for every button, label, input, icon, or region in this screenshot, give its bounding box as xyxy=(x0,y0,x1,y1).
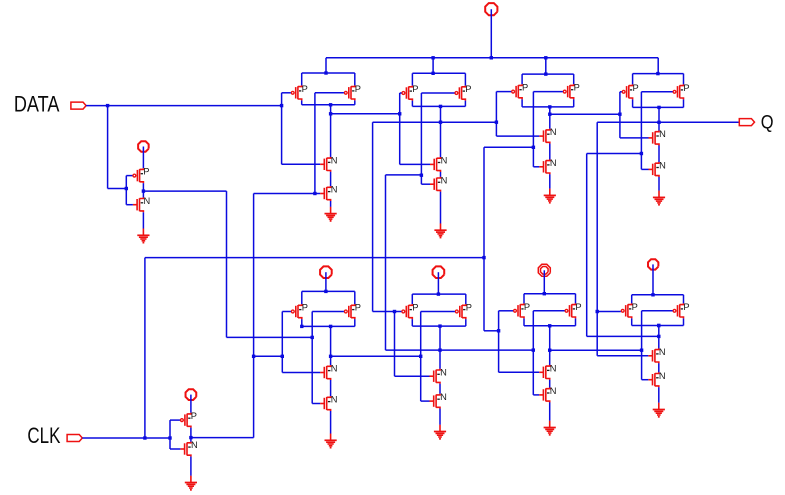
wire mQ horizontal xyxy=(373,121,497,123)
wire G3 P2 gate vertical xyxy=(532,92,534,167)
junction G3 output node xyxy=(548,105,551,108)
wire G6 P1 gate line xyxy=(395,311,402,313)
junction G7 output node xyxy=(548,324,551,327)
wire G5 vdd stem xyxy=(325,272,327,291)
wire G2 pmos top rail xyxy=(412,72,465,74)
wire CLK to G3 gates xyxy=(484,146,533,148)
wire G5 input vertical xyxy=(281,312,283,373)
junction mQ at G2 output xyxy=(439,121,442,124)
pmos G7-P2 xyxy=(565,302,582,319)
junction G8 rail tap xyxy=(657,324,660,327)
junction G8 vdd stem xyxy=(651,293,654,296)
junction G6 output tap xyxy=(438,348,441,351)
svg-text:N: N xyxy=(331,395,338,405)
pmos G2-P2 xyxy=(455,84,472,101)
wire G5 N1 gate line xyxy=(282,372,320,374)
junction CLK at G3/G7 drop xyxy=(482,256,485,259)
svg-text:N: N xyxy=(440,367,447,377)
wire G1 source to ground xyxy=(330,201,332,207)
wire G5 N2 gate stub xyxy=(312,403,320,405)
junction G4 output node xyxy=(657,106,660,109)
wire G6 P2 gate stub xyxy=(421,311,455,313)
wire G8 pmos bottom rail xyxy=(632,325,684,327)
wire G6 N1 gate line xyxy=(395,375,430,377)
junction G1 top wire xyxy=(324,71,327,74)
wire G1 P1 source riser xyxy=(301,73,303,85)
svg-text:P: P xyxy=(465,84,471,94)
wire G8 P1 drain riser xyxy=(631,318,633,325)
wire G6 source to ground xyxy=(439,409,441,425)
wire Q line xyxy=(597,121,740,123)
wire DATA tap to INV1 input xyxy=(108,188,127,190)
svg-text:N: N xyxy=(441,156,448,166)
wire G5 P2 gate stub xyxy=(312,311,344,313)
wire G4 pmos bottom rail xyxy=(633,106,684,108)
junction G7 vdd stem xyxy=(543,292,546,295)
svg-text:N: N xyxy=(191,440,198,450)
power port INV1 xyxy=(138,141,149,152)
port CLK xyxy=(67,435,82,442)
wire G6 out left xyxy=(386,349,441,351)
pmos G5-P2 xyxy=(344,303,361,320)
wire G5 P1 gate stub xyxy=(282,311,291,313)
wire G8 out horizontal xyxy=(587,335,659,337)
ground INV2 xyxy=(185,476,197,491)
wire vdd horizontal rail xyxy=(326,57,658,59)
junction G3 output tap xyxy=(548,113,551,116)
wire G7 P2 gate stub xyxy=(533,310,564,312)
wire G7 P1 source riser xyxy=(523,294,525,304)
junction rail-G3 stub xyxy=(544,56,547,59)
pmos G4-P2 xyxy=(673,83,690,100)
wire G4 N1 gate line xyxy=(620,137,649,139)
wire G6 N2 gate stub xyxy=(421,400,430,402)
label DATA xyxy=(14,91,60,116)
nmos G2-N2 xyxy=(430,175,447,192)
wire G8 out to G4 gates xyxy=(587,153,642,155)
wire G7 N2 gate stub xyxy=(533,394,539,396)
nmos G3-N2 xyxy=(539,158,556,175)
pmos G1-P1 xyxy=(291,84,308,101)
nmos G6-N1 xyxy=(430,367,447,384)
ground G5 xyxy=(325,434,337,449)
nmos INV1-N xyxy=(133,196,150,213)
junction G2 output node xyxy=(439,105,442,108)
nmos G5-N2 xyxy=(320,395,337,412)
wire G1 nmos series link xyxy=(330,172,332,186)
nmos G3-N1 xyxy=(539,127,556,144)
wire G8 feedback vertical xyxy=(586,154,588,337)
wire G8 P2 source riser xyxy=(683,295,685,304)
wire G3 N2 gate stub xyxy=(533,166,539,168)
svg-text:P: P xyxy=(302,84,308,94)
wire G2 P1 source riser xyxy=(411,73,413,85)
svg-text:P: P xyxy=(522,83,528,93)
wire G2 vdd stub xyxy=(432,58,434,74)
svg-text:N: N xyxy=(659,347,666,357)
wire INV2 output link xyxy=(190,428,192,442)
wire INV2 input bar xyxy=(169,420,171,449)
wire G6 pmos bottom rail xyxy=(412,325,466,327)
svg-text:P: P xyxy=(574,83,580,93)
junction G1 output tap xyxy=(329,112,332,115)
junction G4 input xyxy=(618,113,621,116)
pmos G4-P1 xyxy=(622,83,639,100)
wire G8 P1 source riser xyxy=(631,295,633,304)
wire G8 N2 gate stub xyxy=(642,379,649,381)
wire G5 output riser xyxy=(330,326,332,365)
wire G3 out to G4 in xyxy=(550,113,620,115)
wire CLK drop xyxy=(483,147,485,330)
wire G5 pmos top rail xyxy=(302,290,355,292)
wire G4 pmos top rail xyxy=(633,73,684,75)
pmos G3-P1 xyxy=(512,83,529,100)
svg-text:N: N xyxy=(550,386,557,396)
junction CLK-G7 input xyxy=(497,329,500,332)
wire G1 P1 drain riser xyxy=(301,100,303,104)
wire G7 pmos bottom rail xyxy=(524,325,576,327)
power port G5 vdd xyxy=(320,266,332,278)
wire G6 output riser xyxy=(439,326,441,369)
wire G7 P2 drain riser xyxy=(575,318,577,325)
wire G5 pmos bottom rail xyxy=(302,325,355,327)
wire G1 out to G2 in xyxy=(331,113,400,115)
junction G1 output node xyxy=(329,103,332,106)
wire G4 P1 drain riser xyxy=(632,99,634,107)
wire INV2 nmos source xyxy=(190,457,192,476)
wire G1 input vertical xyxy=(281,93,283,165)
wire INV1 vdd stem xyxy=(142,147,144,169)
nmos G2-N1 xyxy=(430,156,447,173)
wire G7 input vertical xyxy=(498,311,500,373)
svg-text:P: P xyxy=(683,302,689,312)
wire Q corner to G8 N1 xyxy=(597,355,648,357)
wire G7 vdd stem xyxy=(543,270,545,293)
wire INV2 input stub P xyxy=(170,419,180,421)
wire Q feedback vertical xyxy=(596,122,598,355)
wire G2 P1 gate stub xyxy=(400,92,402,94)
wire G5 out to G6 xyxy=(331,355,421,357)
wire G7 N1 gate line xyxy=(499,371,540,373)
svg-text:N: N xyxy=(441,175,448,185)
wire G2 N1 gate line xyxy=(400,163,430,165)
wire rail corner down to G4 xyxy=(657,58,659,74)
svg-text:N: N xyxy=(659,371,666,381)
wire G3 P1 source riser xyxy=(521,74,523,84)
nmos G6-N2 xyxy=(430,392,447,409)
wire DATA net xyxy=(86,105,282,107)
wire G8 P1 gate line xyxy=(597,311,621,313)
wire G3 P2 drain riser xyxy=(573,99,575,107)
wire G8 pmos top rail xyxy=(632,294,684,296)
junction mQ-G6 input xyxy=(393,310,396,313)
svg-text:N: N xyxy=(550,158,557,168)
wire G3 output riser xyxy=(549,107,551,129)
junction G1 P2-N2 gates xyxy=(313,192,316,195)
wire DBAR down xyxy=(226,191,228,337)
label Q xyxy=(761,112,774,133)
svg-text:P: P xyxy=(683,83,689,93)
svg-text:P: P xyxy=(632,302,638,312)
svg-text:P: P xyxy=(466,303,472,313)
wire G7 nmos series link xyxy=(549,380,551,388)
svg-text:N: N xyxy=(331,185,338,195)
wire G1 P2 gate vertical xyxy=(314,93,316,194)
wire G3 source to ground xyxy=(549,174,551,188)
wire G4 N2 gate stub xyxy=(641,168,648,170)
junction G7out-G8 input xyxy=(640,349,643,352)
wire DBAR out right xyxy=(143,190,226,192)
junction G5 vdd stem xyxy=(324,290,327,293)
pmos INV2-P xyxy=(181,411,198,428)
wire INV1 nmos source xyxy=(142,212,144,228)
wire G8 P2 drain riser xyxy=(683,318,685,325)
wire G2 source to ground xyxy=(440,192,442,224)
wire INV1 output link xyxy=(142,183,144,197)
pmos INV1-P xyxy=(133,167,150,184)
svg-text:N: N xyxy=(550,363,557,373)
nmos G8-N2 xyxy=(648,371,665,388)
wire G4 nmos series link xyxy=(658,145,660,162)
junction DBAR-G5 gates xyxy=(311,336,314,339)
junction G5out-G6 gates xyxy=(419,355,422,358)
wire G6 input vertical xyxy=(394,312,396,377)
wire INV2 input stub N xyxy=(170,448,180,450)
junction G3 second input xyxy=(532,146,535,149)
junction INV2 input xyxy=(168,436,171,439)
junction G8 output node xyxy=(657,324,660,327)
wire G5 nmos series link xyxy=(330,380,332,396)
wire G2 P2 drain riser xyxy=(464,101,466,107)
pmos G6-P1 xyxy=(402,303,419,320)
junction Q at G4 output xyxy=(657,121,660,124)
nmos G1-N1 xyxy=(320,155,337,172)
wire G3 nmos series link xyxy=(549,144,551,160)
junction G5 output node xyxy=(329,325,332,328)
junction G2 input xyxy=(398,112,401,115)
power port INV2 xyxy=(186,389,197,400)
junction INV2 output xyxy=(189,436,192,439)
svg-text:P: P xyxy=(575,302,581,312)
wire G5 source to ground xyxy=(330,411,332,434)
wire G1 P2 source riser xyxy=(354,73,356,85)
wire G5 P2 source riser xyxy=(354,291,356,304)
wire mQ to G6 P1 gate xyxy=(373,311,395,313)
svg-text:P: P xyxy=(143,167,149,177)
junction CLKB tap xyxy=(252,355,255,358)
ground G3 xyxy=(544,189,556,204)
wire G5 P2 gate vertical xyxy=(311,312,313,404)
wire G6 P2 gate vertical xyxy=(420,312,422,402)
wire G4 P2 drain riser xyxy=(683,99,685,107)
wire DBAR to G5 xyxy=(227,336,313,338)
pmos G3-P2 xyxy=(563,83,580,100)
junction mQ at G3 input xyxy=(495,121,498,124)
wire CLK rail xyxy=(145,257,484,259)
pmos G5-P1 xyxy=(291,303,308,320)
wire G4 P2 source riser xyxy=(683,74,685,85)
wire G3 P1 drain riser xyxy=(521,99,523,107)
wire CLKB out right xyxy=(191,437,254,439)
wire G7 output riser xyxy=(549,326,551,365)
svg-text:P: P xyxy=(412,303,418,313)
pmos G2-P1 xyxy=(402,84,419,101)
pmos G8-P2 xyxy=(673,302,690,319)
svg-text:N: N xyxy=(144,196,151,206)
wire G3 input vertical xyxy=(495,92,497,137)
svg-text:P: P xyxy=(302,303,308,313)
power port G8 vdd xyxy=(648,259,658,269)
wire G5 P2 drain riser xyxy=(354,319,356,326)
junction G6 output node xyxy=(438,324,441,327)
junction G8 output tap xyxy=(657,335,660,338)
nmos G1-N2 xyxy=(320,185,337,202)
pmos G6-P2 xyxy=(455,303,472,320)
wire G8 P2 gate vertical xyxy=(641,311,643,380)
wire G7 P1 gate stub xyxy=(499,310,513,312)
svg-text:N: N xyxy=(331,155,338,165)
svg-text:N: N xyxy=(659,129,666,139)
junction DATA to inverter tap xyxy=(106,104,109,107)
wire G1 pmos bottom rail xyxy=(302,104,355,106)
power port VDD top xyxy=(485,3,497,15)
svg-text:DATA: DATA xyxy=(14,91,60,116)
wire G6 P1 source riser xyxy=(411,294,413,304)
junction CLK riser xyxy=(143,436,146,439)
label CLK xyxy=(27,423,60,448)
ground G2 xyxy=(434,223,446,238)
junction G5 rail left xyxy=(300,325,303,328)
ground G4 xyxy=(653,191,665,206)
svg-text:N: N xyxy=(440,392,447,402)
ground INV1 xyxy=(137,229,149,244)
wire G6 nmos series link xyxy=(439,384,441,394)
junction CLKB-G5 input xyxy=(281,355,284,358)
wire G6 out to G2 gates xyxy=(386,174,422,176)
wire G5 P1 source riser xyxy=(301,291,303,304)
junction G2 second input xyxy=(420,174,423,177)
wire G8 nmos series link xyxy=(658,363,660,372)
wire CLKB vertical xyxy=(253,194,255,438)
wire G8 output riser xyxy=(658,326,660,349)
junction G5 output tap xyxy=(329,355,332,358)
junction G4 top wire xyxy=(656,72,659,75)
wire G1 P2 gate stub xyxy=(315,92,344,94)
wire G2 P1 drain riser xyxy=(411,101,413,107)
junction G6 vdd stem xyxy=(437,292,440,295)
svg-text:P: P xyxy=(633,83,639,93)
junction G6out-G7 gates xyxy=(532,348,535,351)
wire G4 input vertical xyxy=(619,92,621,138)
wire CLKB to G1 N2 line xyxy=(254,193,321,195)
nmos G4-N2 xyxy=(649,161,666,178)
svg-text:P: P xyxy=(355,303,361,313)
junction G3 top wire xyxy=(544,72,547,75)
wire DATA tap down xyxy=(107,106,109,189)
wire INV2 vdd stem xyxy=(190,395,192,413)
wire G2 P2 source riser xyxy=(464,73,466,85)
wire G1 N1 gate line xyxy=(282,163,321,165)
wire G2 P2 gate vertical xyxy=(420,93,422,184)
nmos G7-N1 xyxy=(539,363,556,380)
wire G3 pmos bottom rail xyxy=(522,106,574,108)
nmos G8-N1 xyxy=(648,347,665,364)
nmos G7-N2 xyxy=(539,386,556,403)
svg-text:Q: Q xyxy=(761,112,774,133)
wire G3 P1 gate stub xyxy=(496,91,511,93)
wire G7 P1 drain riser xyxy=(523,318,525,325)
pmos G1-P2 xyxy=(344,84,361,101)
wire G3 N1 gate line xyxy=(496,135,539,137)
wire CLK to G7 gates xyxy=(484,330,499,332)
wire G8 source to ground xyxy=(658,387,660,403)
svg-text:P: P xyxy=(412,84,418,94)
svg-text:N: N xyxy=(550,127,557,137)
wire G1 pmos top rail xyxy=(302,72,355,74)
wire rail corner down to G1 xyxy=(325,58,327,73)
ground G7 xyxy=(544,421,556,436)
wire G8 P2 gate stub xyxy=(642,310,673,312)
wire G7 P2 source riser xyxy=(575,294,577,304)
wire G6 pmos top rail xyxy=(412,293,466,295)
wire G3 P2 source riser xyxy=(573,74,575,84)
wire G3 P2 gate stub xyxy=(533,91,562,93)
wire G7 P2 gate vertical xyxy=(532,311,534,395)
port Q xyxy=(739,119,754,126)
wire G2 N2 gate stub xyxy=(421,183,430,185)
wire INV1 input stub P xyxy=(126,175,132,177)
port DATA xyxy=(71,102,86,109)
junction DATA-G1 input xyxy=(280,104,283,107)
wire vdd symbol stem xyxy=(490,9,492,58)
wire G3 pmos top rail xyxy=(522,73,574,75)
junction rail-G2 stub xyxy=(431,56,434,59)
svg-text:N: N xyxy=(659,161,666,171)
wire G4 P1 gate stub xyxy=(620,91,622,93)
power port G7 vdd xyxy=(538,264,550,276)
wire G2 output riser xyxy=(440,106,442,157)
junction Q-G8 input xyxy=(596,310,599,313)
svg-text:CLK: CLK xyxy=(27,423,60,448)
junction G2 top wire xyxy=(431,72,434,75)
ground G6 xyxy=(434,425,446,440)
wire G6 P2 drain riser xyxy=(465,319,467,326)
wire G5 P1 drain riser xyxy=(301,319,303,326)
wire G2 nmos series link xyxy=(440,172,442,177)
wire mQ down to G6 xyxy=(372,122,374,311)
wire G4 P2 gate vertical xyxy=(640,92,642,170)
junction rail-vdd stem xyxy=(490,56,493,59)
svg-text:P: P xyxy=(355,84,361,94)
wire CLK net xyxy=(82,437,170,439)
wire G3 vdd stub xyxy=(545,58,547,74)
nmos INV2-N xyxy=(180,440,197,457)
ground G8 xyxy=(653,403,665,418)
ground G1 xyxy=(325,207,337,222)
wire G7 out to G8 xyxy=(550,349,642,351)
svg-text:N: N xyxy=(331,364,338,374)
wire G2 P2 gate stub xyxy=(421,92,454,94)
wire CLK riser xyxy=(144,258,146,438)
junction G7 output tap xyxy=(548,349,551,352)
pmos G8-P1 xyxy=(621,302,638,319)
nmos G5-N1 xyxy=(320,364,337,381)
wire G4 P1 source riser xyxy=(632,74,634,85)
wire INV1 input stub N xyxy=(126,204,133,206)
wire G6 out to G7 gates xyxy=(440,349,533,351)
wire G6 out riser xyxy=(385,175,387,350)
wire INV1 input bar xyxy=(125,176,127,205)
